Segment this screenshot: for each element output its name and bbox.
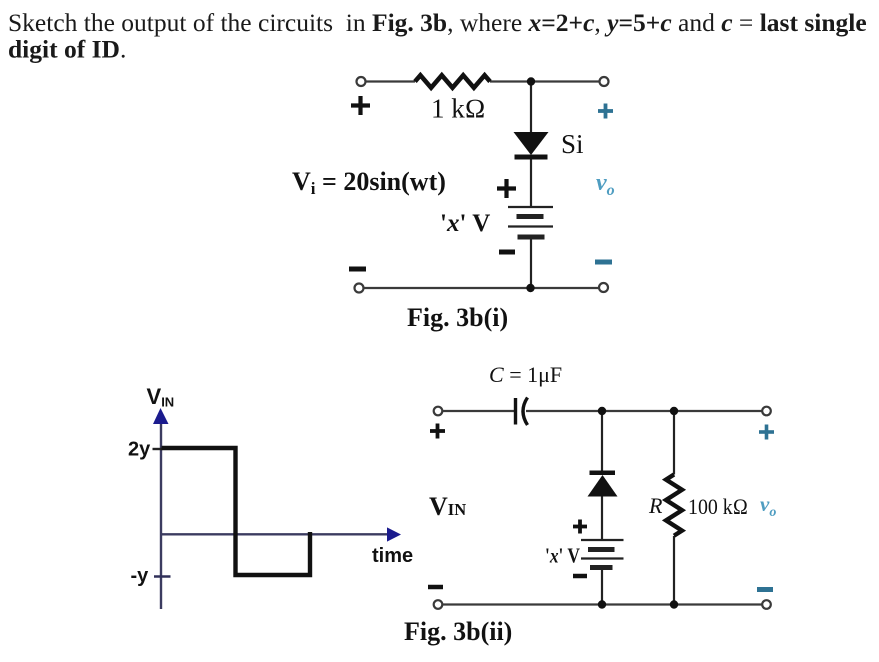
svg-text:'x' V: 'x' V <box>545 544 580 568</box>
svg-text:2y: 2y <box>128 439 151 461</box>
svg-text:vo: vo <box>760 492 776 520</box>
svg-text:-y: -y <box>131 565 150 587</box>
svg-text:1 kΩ: 1 kΩ <box>431 94 486 124</box>
svg-text:vo: vo <box>596 170 615 199</box>
svg-text:Sketch the output of the circu: Sketch the output of the circuits in Fig… <box>8 8 867 37</box>
svg-text:VIN: VIN <box>147 384 175 410</box>
svg-text:digit of ID.: digit of ID. <box>8 35 126 64</box>
svg-text:Fig. 3b(i): Fig. 3b(i) <box>407 303 508 332</box>
svg-text:'x' V: 'x' V <box>440 210 490 237</box>
svg-text:Fig. 3b(ii): Fig. 3b(ii) <box>404 617 512 646</box>
svg-text:100 kΩ: 100 kΩ <box>688 494 748 519</box>
svg-text:Vi = 20sin(wt): Vi = 20sin(wt) <box>292 167 446 198</box>
svg-text:C = 1μF: C = 1μF <box>489 362 562 387</box>
svg-text:Si: Si <box>561 129 584 159</box>
svg-text:time: time <box>372 545 413 567</box>
svg-text:VIN: VIN <box>429 492 466 521</box>
svg-text:R: R <box>648 493 663 518</box>
